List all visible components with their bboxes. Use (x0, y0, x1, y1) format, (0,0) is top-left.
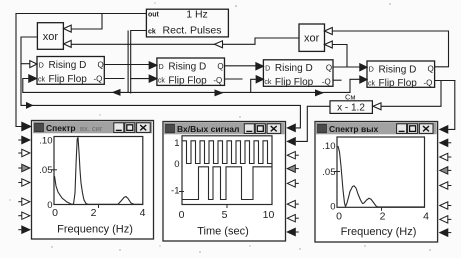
window P3 frame (315, 122, 438, 243)
svg-text:1 Hz: 1 Hz (186, 9, 208, 21)
svg-text:0: 0 (336, 211, 342, 223)
svg-text:4: 4 (423, 211, 429, 223)
svg-text:Frequency (Hz): Frequency (Hz) (341, 226, 417, 238)
svg-text:Rising D: Rising D (49, 60, 87, 71)
block G1: 1 Hz Rect. Pulses generator (146, 9, 228, 37)
svg-text:Rising D: Rising D (275, 63, 313, 74)
wire: vertical V1 clock branch (127, 31, 129, 92)
svg-text:Flip Flop: Flip Flop (275, 77, 314, 88)
window P1 title bar (33, 122, 152, 134)
wire: FF3 Q to FF4 D (333, 66, 360, 68)
wire: branch from node A to xor U1 input 1 (72, 14, 103, 30)
svg-text:10: 10 (263, 209, 275, 221)
wire: FF2 ck from clock vertical V2 (131, 78, 150, 80)
wire W3: clock rail to FF1 ck, FF3 ck, FF4 ck (23, 79, 360, 97)
plot P3 x-axis labels (336, 211, 429, 223)
svg-text:ck: ck (148, 29, 156, 36)
svg-text:Q: Q (98, 61, 104, 70)
flip-flop FF4 (360, 61, 435, 89)
wire: FF3 -Q stub (333, 79, 341, 81)
node label CM (345, 93, 356, 102)
svg-text:-Q: -Q (213, 76, 222, 85)
plot P3 y-axis labels (322, 141, 335, 213)
svg-text:Q: Q (428, 65, 434, 74)
svg-text:0: 0 (330, 202, 335, 213)
wire: FF2 -Q stub (225, 78, 243, 80)
scope P3 input ports (right column) (440, 126, 452, 237)
svg-text:См: См (345, 93, 356, 102)
xor U1 (37, 23, 71, 50)
svg-text:Flip Flop: Flip Flop (379, 78, 418, 89)
scope window P3: Spektr vyx (output spectrum) (315, 122, 451, 243)
block M1: gain x -1.2 (330, 101, 381, 114)
wire: FF4 Q feedback to xor U2 input 1 (332, 31, 448, 67)
plot P2 axes box (179, 136, 272, 208)
svg-text:-1: -1 (171, 186, 179, 197)
svg-text:Вх/Вых сигнал: Вх/Вых сигнал (177, 124, 239, 134)
svg-text:0: 0 (52, 207, 58, 219)
svg-text:2: 2 (91, 207, 97, 219)
svg-text:x - 1.2: x - 1.2 (337, 102, 365, 113)
plot P2 axis title (197, 226, 249, 238)
wire W2: xor U1 output down to rail and to scope P2 port 1 (21, 37, 300, 128)
svg-text:xor: xor (43, 31, 59, 43)
flip-flop FF1 (29, 57, 105, 86)
svg-text:.10: .10 (39, 136, 52, 147)
wire: FF1 Q to FF2 D (104, 64, 149, 66)
svg-text:xor: xor (304, 33, 320, 45)
svg-text:ck: ck (264, 79, 272, 86)
plot P3 spectrum curve (338, 146, 424, 207)
svg-text:ck: ck (368, 80, 376, 87)
scope window P1: Spektr (input spectrum) (18, 121, 153, 240)
wire: multiplier M1 output to scope P2 port 2 (296, 106, 330, 141)
wire: FF4 -Q output run (435, 80, 455, 82)
plot P2 x-axis labels (179, 209, 275, 221)
plot P2 clock trace (182, 141, 272, 164)
wire: FF1 -Q stub (104, 78, 124, 80)
wire: clock node to 1Hz ck input (vertical V2) (131, 31, 146, 93)
svg-text:2: 2 (380, 211, 386, 223)
svg-text:ck: ck (38, 76, 46, 83)
plot P1 y-axis labels (39, 136, 52, 211)
window P3 title bar (316, 123, 437, 135)
svg-text:D: D (159, 64, 164, 71)
svg-text:D: D (265, 65, 270, 72)
svg-text:Спектр: Спектр (46, 123, 76, 133)
svg-text:-Q: -Q (424, 79, 433, 88)
plot P2 y-axis labels (171, 138, 179, 197)
svg-text:Rising D: Rising D (168, 62, 206, 73)
plot P2 flip-flop output trace (182, 167, 272, 200)
svg-text:4: 4 (140, 207, 146, 219)
window P1 frame (32, 121, 154, 240)
svg-text:-Q: -Q (94, 75, 103, 84)
scope P1 input ports (left column) (18, 122, 31, 233)
wire: FF2 Q to FF3 D (225, 65, 256, 67)
wire: 1 Hz out rail (node A, down left side to scope P1) (16, 14, 146, 127)
svg-text:.10: .10 (322, 141, 335, 152)
svg-text:Спектр вых: Спектр вых (329, 124, 378, 134)
svg-text:1: 1 (174, 138, 179, 149)
plot P3 axis title (341, 226, 417, 238)
svg-text:ck: ck (158, 78, 166, 85)
svg-text:5: 5 (222, 209, 228, 221)
svg-text:D: D (369, 67, 374, 74)
wire: FF3 Q tap up to xor U2 input 2 (332, 45, 347, 68)
svg-text:-Q: -Q (322, 77, 331, 86)
svg-text:Q: Q (217, 62, 223, 71)
wire: FF4 -Q branch to scope P3 port 1 (449, 81, 455, 130)
flip-flop FF2 (149, 58, 224, 86)
wire: FF4 -Q branch to multiplier M1 input (381, 81, 441, 107)
svg-text:Q: Q (326, 64, 332, 73)
svg-text:Time (sec): Time (sec) (197, 226, 249, 238)
svg-text:0: 0 (179, 209, 185, 221)
window P2 title bar (164, 123, 285, 135)
window P2 frame (163, 122, 286, 242)
plot P3 axes box (334, 137, 425, 211)
svg-text:out: out (148, 12, 160, 19)
wire: xor U2 output to xor U1 input 2 (72, 38, 300, 48)
plot P1 x-axis labels (52, 207, 146, 219)
scope window P2: Vx/Vyx signal (time plot) (163, 122, 299, 242)
svg-text:Rect. Pulses: Rect. Pulses (163, 25, 222, 37)
svg-text:Frequency (Hz): Frequency (Hz) (57, 224, 133, 236)
svg-text:.05: .05 (39, 165, 52, 176)
plot P1 spectrum curve (55, 138, 143, 205)
svg-text:Rising D: Rising D (379, 64, 417, 75)
svg-text:Flip Flop: Flip Flop (49, 74, 88, 85)
svg-text:вх. сиг: вх. сиг (80, 124, 103, 133)
svg-text:Flip Flop: Flip Flop (168, 75, 207, 86)
plot P1 axis title (57, 224, 133, 236)
svg-text:.05: .05 (322, 167, 335, 178)
flip-flop FF3 (256, 60, 333, 88)
xor U2 (299, 24, 332, 51)
scope P2 input ports (right column) (287, 124, 299, 236)
svg-text:D: D (39, 62, 44, 69)
plot P1 axes box (51, 137, 143, 209)
wire: branch from W2 to FF1 D input (21, 63, 30, 65)
svg-text:0: 0 (174, 159, 179, 170)
